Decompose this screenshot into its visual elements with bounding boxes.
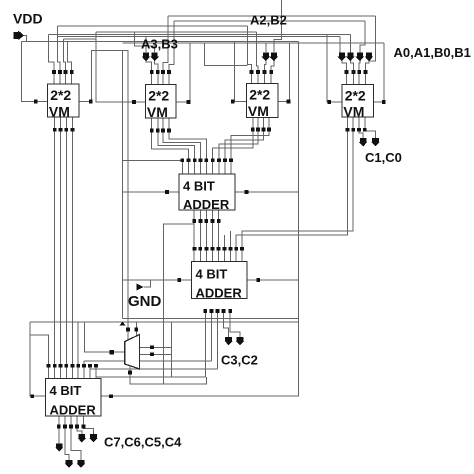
2x2 vedic multiplier U3: [247, 84, 279, 118]
wire VM4 right riser: [374, 43, 384, 102]
wire VM3 pin B2 uplink from top edge: [274, 0, 282, 52]
node mux out dots: [150, 345, 154, 349]
wire mux outs join down: [171, 322, 173, 377]
output pin carry C4b: [89, 434, 97, 442]
2x2 vedic multiplier U4: [342, 85, 374, 118]
output pin C1: [359, 138, 367, 146]
node adder2 in dots: [193, 247, 197, 251]
wire VM2 right riser: [176, 43, 190, 102]
wire VM4 pin stub 1: [342, 61, 347, 72]
svg-text:VM: VM: [49, 103, 70, 119]
wire adder1 right to carry: [235, 191, 299, 193]
node mux top dots: [126, 328, 130, 332]
wire double line lower: [30, 321, 299, 323]
2x2 vedic multiplier U1: [48, 84, 80, 117]
node adder1 left dot: [165, 190, 169, 194]
wire VM4 out1 long: [236, 117, 347, 249]
wire VM4 input stubs: [347, 72, 366, 85]
input pin A2: [262, 52, 270, 61]
wire mux out1: [140, 346, 172, 348]
node adder1 out dots: [192, 219, 196, 223]
wire VM3 out3 to adder1: [225, 118, 263, 161]
node VM2 out dots: [150, 129, 154, 133]
input pin B1: [365, 52, 373, 61]
wire VM4 pin stub 4: [366, 61, 370, 72]
node adder2 cin dot: [177, 278, 181, 282]
wire double line upper: [123, 318, 299, 320]
svg-text:2*2: 2*2: [148, 87, 169, 103]
wire carry down to adder3 right: [101, 323, 299, 396]
wire VM2 left: [96, 32, 146, 102]
node adder3 right dot: [109, 394, 113, 398]
input pin B2: [270, 52, 278, 61]
wire GND stub: [144, 280, 151, 287]
4-bit adder U6: [192, 262, 248, 299]
node VM1 left dot: [34, 100, 38, 104]
wire bus to adder1 in row: [123, 159, 183, 161]
wire VM2 out1 to adder1: [152, 118, 189, 160]
output pin C7: [55, 444, 63, 452]
wire adder1 input stubs: [182, 160, 231, 174]
svg-text:C3,C2: C3,C2: [221, 353, 258, 368]
wire adder3 out5: [83, 416, 93, 435]
node adder3 in dots: [47, 364, 51, 368]
input pin A0: [338, 52, 346, 61]
multiplexer MUX1: [125, 335, 140, 370]
wire adder1 left to bus: [123, 191, 180, 193]
wire VM1 out to adder3 col4: [71, 117, 73, 366]
wire VDD bus y41: [21, 40, 298, 42]
node adder3 out dots: [57, 425, 61, 429]
wire adder3 in7 feed: [84, 311, 211, 366]
node VM1 right dot: [89, 100, 93, 104]
wire mux bus x122.5: [122, 50, 124, 318]
node adder2 out dots: [203, 309, 207, 313]
wire adder3 out4: [77, 416, 82, 435]
wire VM4 out4 to C0: [365, 117, 376, 139]
svg-text:2*2: 2*2: [50, 87, 71, 103]
output pin C0: [371, 138, 379, 146]
wire VM2 out3 to adder1: [163, 118, 201, 160]
node VM4 left dot: [327, 100, 331, 104]
wire VM1 comb feed 2: [57, 26, 60, 72]
svg-text:A0,A1,B0,B1: A0,A1,B0,B1: [394, 45, 471, 60]
wire VM3 out2 to adder1: [219, 118, 258, 161]
wire mux out2: [140, 353, 172, 355]
input pin B0: [356, 52, 364, 61]
wire VM4 comb feed 4: [369, 16, 376, 61]
wire VM2 out2 to adder1: [158, 118, 195, 160]
svg-text:A2,B2: A2,B2: [250, 13, 287, 28]
output pin C3: [224, 337, 232, 345]
node VM1 in dots: [52, 70, 56, 74]
wire VM3 left: [235, 41, 247, 101]
wire mux in1: [127, 330, 129, 341]
svg-text:VDD: VDD: [13, 11, 43, 27]
wire bundle L4 y38.9: [64, 38, 96, 40]
wire VM1 out to adder3 col2: [60, 117, 62, 366]
wire VM2 input stubs: [152, 72, 169, 85]
wire VM1 comb feed 1: [49, 34, 54, 71]
wire VM1 comb feed 3: [64, 39, 66, 72]
wire left bus x21 down to VM1 left: [21, 41, 47, 101]
wire VM3 pin A2 uplink: [265, 43, 267, 52]
wire bundle L1 y31.8: [96, 31, 256, 33]
wire VM3 pin to in3: [264, 60, 265, 72]
node mux left dot: [110, 350, 114, 354]
wire VM2 out4 to adder1: [169, 118, 206, 160]
svg-text:C7,C6,C5,C4: C7,C6,C5,C4: [104, 435, 182, 450]
wire B3 pin uplink: [134, 32, 154, 52]
wire mux in2: [135, 322, 137, 338]
svg-text:VM: VM: [248, 103, 269, 119]
wire adder2 out5 to C2: [230, 311, 240, 337]
wire bundle L3 y36.6: [57, 36, 340, 38]
wire VM4 pin stub 2: [350, 61, 353, 72]
wire VM4 left: [327, 34, 342, 102]
output pin C4: [78, 434, 86, 442]
ground pin GND: [137, 284, 144, 291]
wire adder2 input stubs: [194, 249, 242, 262]
node mux select dot: [128, 371, 132, 375]
node VM3 out dots: [251, 128, 255, 132]
svg-text:ADDER: ADDER: [183, 197, 230, 212]
wire adder3 out2: [65, 416, 69, 460]
output pin C6: [65, 460, 73, 468]
wire adder3 in9 feed: [96, 311, 205, 377]
node VM1 out dots: [53, 128, 57, 132]
wire VM3 right riser: [278, 43, 290, 101]
input pin B3: [151, 52, 159, 61]
node VM4 in dots: [345, 70, 349, 74]
wire VM3 comb feed 1: [248, 26, 252, 72]
wire adder3 out3: [71, 416, 81, 460]
node VM2 right dot: [187, 100, 191, 104]
wire bundle L2 y34.4: [49, 33, 351, 35]
wire A3 pin uplink: [145, 37, 147, 52]
node adder1 right dot: [245, 190, 249, 194]
wire VM4 comb feed 1: [339, 37, 341, 53]
wire adder3 in6 feed: [77, 322, 79, 366]
svg-text:C1,C0: C1,C0: [365, 150, 402, 165]
node VM2 in dots: [150, 70, 154, 74]
wire carry vertical x298: [298, 41, 300, 323]
wire GND to adder2 cin: [123, 279, 192, 281]
wire adder3 input stubs: [49, 366, 96, 379]
wire top pair drop to VM2 in3: [163, 16, 168, 72]
power pin VDD: [14, 31, 25, 39]
node adder2 right dot: [256, 278, 260, 282]
svg-text:4 BIT: 4 BIT: [50, 383, 82, 398]
wire VM4 out2 long: [242, 117, 353, 249]
node VM4 out dots: [346, 128, 350, 132]
node VM3 left dot: [231, 100, 235, 104]
output pin C2: [236, 337, 244, 345]
svg-text:A3,B3: A3,B3: [141, 37, 178, 52]
svg-text:VM: VM: [343, 103, 364, 119]
node VM3 in dots: [250, 70, 254, 74]
svg-text:ADDER: ADDER: [196, 285, 243, 300]
wire A3 pin to VM2 in1: [146, 60, 152, 72]
wire adder2 right to carry: [247, 279, 299, 281]
wire B3 pin to VM2 in2: [155, 60, 158, 72]
wire adder1 carry down: [163, 221, 194, 384]
wire VDD stub from pin: [20, 35, 27, 41]
wire mux left input: [84, 322, 125, 352]
node mux feed arrow: [120, 322, 126, 326]
svg-text:4 BIT: 4 BIT: [196, 266, 228, 281]
4-bit adder U5: [179, 174, 235, 210]
wire top pair line1 A2B2: [168, 15, 376, 17]
wire VM1 input stubs: [54, 72, 72, 84]
output pin C5: [77, 460, 85, 468]
wire VM3 input stubs: [251, 72, 271, 84]
wire adder1 outs to adder2: [194, 210, 219, 249]
wire VM4 out3 to C1: [359, 117, 363, 139]
wire left bus x30 down: [30, 322, 46, 396]
node VM2 left dot: [132, 100, 136, 104]
wire top pair line2 A2B2: [174, 20, 365, 22]
wire VM1 right to mux bus: [79, 50, 128, 329]
wire VM3 comb outer frame: [205, 43, 248, 65]
node adder1 in dots: [180, 158, 184, 162]
input pin A3: [142, 52, 150, 61]
wire VM4 comb feed 3: [360, 21, 365, 53]
svg-text:2*2: 2*2: [345, 87, 366, 103]
wire VM4 comb feed 2: [349, 34, 351, 52]
wire VM3 out4 to adder1: [231, 118, 269, 161]
2x2 vedic multiplier U2: [146, 85, 177, 119]
wire adder2 out4 to C3: [223, 311, 228, 337]
wire VM4 pin stub 3: [358, 61, 361, 72]
svg-text:4 BIT: 4 BIT: [183, 179, 215, 194]
wire adder2 in6 stub: [224, 235, 226, 249]
wire adder3 out1: [58, 416, 60, 444]
wire VM1 out to adder3 col3: [65, 117, 67, 366]
wire adder3 in8 feed: [90, 311, 217, 369]
wire VM1 out to adder3 col1: [54, 117, 56, 366]
wire VM3 comb feed 2: [256, 32, 258, 72]
wire VM3 out1 to adder1: [213, 118, 253, 161]
svg-text:GND: GND: [128, 293, 162, 310]
wire mux select: [130, 357, 207, 384]
node adder3 left dot: [30, 394, 34, 398]
wire bundle L26 y26.2: [57, 25, 247, 27]
svg-text:VM: VM: [147, 104, 168, 120]
wire VM1 comb feed 4: [68, 41, 72, 72]
node VM3 right dot: [287, 100, 291, 104]
svg-text:ADDER: ADDER: [50, 402, 97, 417]
wire adder2 in7 stub: [230, 231, 232, 249]
wire VM3 pin to in4: [271, 60, 274, 72]
wire bundle L6 y43.2: [123, 42, 384, 44]
4-bit adder U7: [46, 379, 102, 417]
node VM4 right dot: [382, 100, 386, 104]
input pin A1: [346, 52, 354, 61]
wire top pair drop to VM2 in4: [169, 21, 174, 72]
wire adder3 in1 feed: [30, 335, 49, 366]
svg-text:2*2: 2*2: [249, 86, 270, 102]
